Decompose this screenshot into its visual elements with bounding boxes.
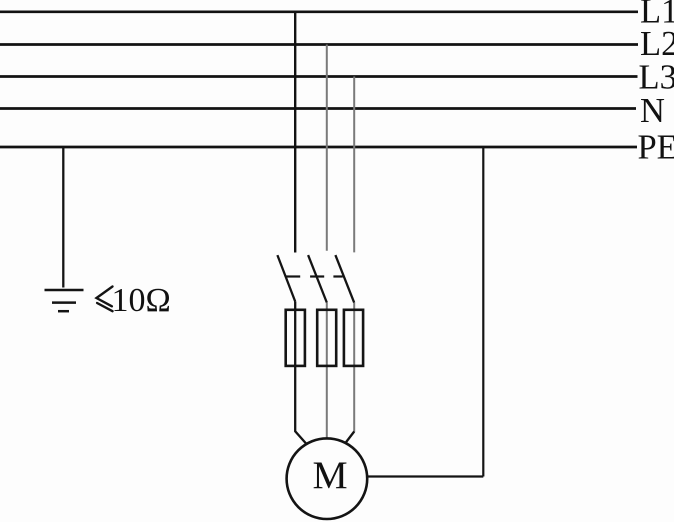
switch QS pole 2 blade <box>308 255 327 302</box>
switch QS linkage dash 3 <box>333 275 342 277</box>
wire drop from L3 to switch pole 3 <box>353 77 355 253</box>
wire drop from PE to ground electrode <box>62 147 64 288</box>
switch QS linkage dash 1 <box>285 275 300 277</box>
wire drop from PE to motor frame <box>482 147 484 477</box>
svg-text:10Ω: 10Ω <box>112 282 171 319</box>
value label: less-than-or-equal symbol <box>97 287 113 312</box>
wire drop from L1 to switch pole 1 <box>294 12 296 253</box>
svg-text:N: N <box>640 92 665 130</box>
wire switch pole 1 to motor <box>295 302 306 445</box>
wire PE bus <box>0 146 637 149</box>
switch QS pole 1 blade <box>277 255 295 301</box>
wire L2 bus <box>0 43 638 46</box>
wire switch pole 3 to motor (vertical) <box>353 303 355 432</box>
wire switch pole 2 to motor <box>326 303 328 439</box>
wire switch pole 3 to motor (slant) <box>346 432 354 443</box>
wire N bus <box>0 107 636 110</box>
fuse FU pole 1 <box>286 310 305 366</box>
wire L1 bus <box>0 10 638 13</box>
wire L3 bus <box>0 75 638 78</box>
ground (earth electrode) <box>45 290 84 311</box>
svg-text:PE: PE <box>638 128 674 166</box>
switch QS pole 3 blade <box>335 255 354 303</box>
motor M circle <box>287 438 368 519</box>
fuse FU pole 2 <box>317 310 336 366</box>
fuse FU pole 3 <box>344 310 363 366</box>
svg-text:L2: L2 <box>640 25 674 63</box>
switch QS linkage dash 2 <box>310 275 324 277</box>
wire drop from L2 to switch pole 2 <box>326 45 328 251</box>
wire PE to motor (horizontal) <box>368 475 484 477</box>
svg-text:M: M <box>313 453 348 497</box>
